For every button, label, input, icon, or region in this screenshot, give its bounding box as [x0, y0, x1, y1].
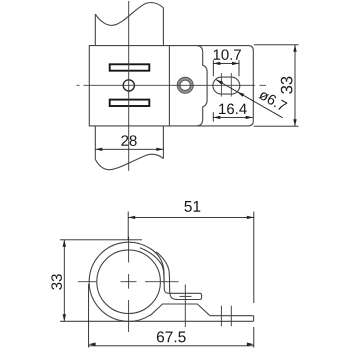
- value label 33 (top view): [281, 77, 293, 94]
- pipe top break wave: [95, 3, 163, 26]
- slot edge ticks on tab: [220, 306, 222, 327]
- pipe left edge upper segment: [94, 14, 96, 45]
- vertical centerline: [128, 1, 130, 171]
- 51 arrows: [128, 216, 135, 219]
- 10.7 arrows: [213, 62, 220, 65]
- oval slot (obround): [213, 77, 240, 94]
- horizontal centerline: [77, 84, 267, 86]
- band inner circle: [97, 250, 161, 314]
- leader arrows: [216, 80, 223, 85]
- weld hole cross tick: [180, 295, 192, 297]
- band fold line (divider): [168, 46, 170, 126]
- weld hole centerline (side view): [184, 285, 186, 328]
- band leg outer line into step bottom: [156, 252, 199, 300]
- 16.4 arrows: [213, 116, 220, 119]
- center hole: [123, 80, 134, 91]
- dimension 16.4: [213, 112, 252, 121]
- 33 bottom arrows: [63, 240, 66, 247]
- dimension 10.7: [213, 60, 239, 76]
- 67.5 arrows: [89, 343, 96, 346]
- value label 33 (bottom view): [51, 274, 62, 289]
- leader ø6.7: [216, 80, 283, 118]
- dimension 67.5: [89, 284, 254, 348]
- arrows drawn explicitly: [63, 45, 297, 346]
- step rounded end cap: [200, 293, 202, 299]
- pipe right edge lower segment: [162, 126, 164, 159]
- tab top surface: [210, 315, 254, 317]
- value label 16.4: [219, 104, 247, 115]
- tab strip with fold bump (white mask): [150, 304, 254, 321]
- dimension 28: [95, 148, 163, 150]
- oval slot right arc centerline tick: [230, 73, 232, 97]
- band inner surface arc peeling off pipe into leg: [140, 248, 164, 283]
- upper slot: [110, 64, 150, 70]
- tab bottom surface (with 33/67.5 extension to left): [60, 320, 254, 322]
- spot weld ring (gray annulus): [177, 77, 193, 93]
- 33 top arrows: [293, 45, 296, 52]
- tab end cap: [253, 316, 255, 322]
- 28 arrows: [95, 148, 102, 151]
- value label 10.7: [214, 49, 241, 60]
- dimension 51: [128, 212, 254, 348]
- pipe bottom break wave: [95, 154, 163, 170]
- fold bump (trapezoid): [150, 304, 210, 316]
- dimension 33 (top view, right): [254, 45, 299, 126]
- pipe right edge upper segment: [162, 8, 164, 46]
- value label 67.5: [157, 331, 186, 342]
- value label 28: [121, 135, 136, 146]
- value label 51: [184, 201, 200, 212]
- clamp plate outline with rounded right corners: [89, 46, 253, 126]
- pipe left edge lower segment: [94, 126, 96, 159]
- dimension 33 (bottom view, left): [60, 240, 142, 321]
- lower slot: [110, 100, 150, 106]
- band right edge with bump: [203, 52, 207, 119]
- oval slot left arc centerline tick: [220, 73, 222, 97]
- band outer silhouette: outer circle arc flowing into leg and step top: [89, 242, 199, 321]
- value label ø6.7: [258, 89, 287, 112]
- band top-right rounded corner: [196, 46, 203, 53]
- band bottom-right rounded corner: [196, 119, 203, 126]
- circle centerlines: [78, 237, 179, 333]
